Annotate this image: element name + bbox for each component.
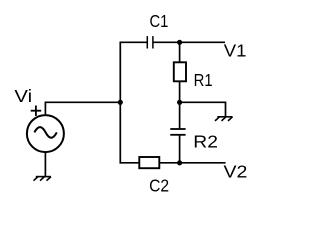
svg-text:V2: V2	[224, 162, 248, 182]
sine wave inside source	[34, 127, 56, 138]
svg-text:Vi: Vi	[14, 86, 32, 106]
wire: R2 bottom down to bottom junction	[179, 135, 181, 163]
component C2 (box symbol)	[139, 157, 159, 168]
svg-text:R2: R2	[193, 131, 218, 151]
capacitor C1	[147, 36, 153, 48]
wire: junction down to R2	[179, 102, 181, 128]
svg-text:R1: R1	[194, 70, 213, 90]
wire: left rail vertical from top branch to bottom branch	[119, 42, 121, 164]
ground (below source, signal ground with hatches)	[34, 177, 52, 181]
node: junction of C1 output and R1 top	[177, 40, 182, 45]
node: junction of R1 bottom, R2 top and ground stub	[177, 100, 182, 105]
wire: bottom branch right segment from C2 to V2	[159, 162, 225, 164]
voltage source Vi (AC source circle with sine)	[27, 115, 64, 152]
wire: R1 bottom to middle-right junction	[179, 81, 181, 102]
node: junction of input wire and left rail	[118, 100, 123, 105]
node: junction of R2 bottom, C2 and V2	[177, 160, 182, 165]
ground (right, signal ground with hatches)	[215, 117, 233, 121]
wire: top branch right segment from C1 to V1	[153, 41, 225, 43]
wire: bottom branch left segment from rail to C2	[120, 162, 140, 164]
wire: from top junction down to R1	[179, 42, 181, 62]
wire: top branch left segment to C1	[120, 41, 148, 43]
wire: from source top up and right to the left rail junction	[45, 102, 120, 114]
svg-text:C1: C1	[150, 11, 169, 31]
wire: source bottom to ground	[44, 152, 46, 177]
svg-text:C2: C2	[149, 176, 169, 196]
component R2 (capacitor-style symbol)	[170, 129, 185, 135]
svg-text:V1: V1	[224, 40, 247, 60]
plus sign (source polarity)	[31, 106, 42, 116]
wire: from junction right then down to ground	[180, 102, 226, 117]
resistor R1	[174, 62, 186, 81]
